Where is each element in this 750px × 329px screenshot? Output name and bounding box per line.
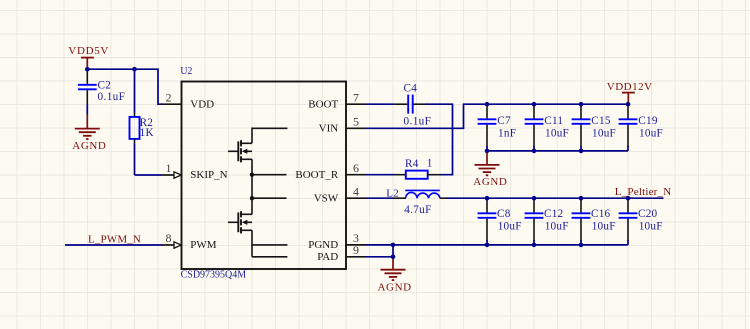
svg-text:10uF: 10uF: [592, 221, 616, 233]
svg-text:10uF: 10uF: [545, 221, 569, 233]
svg-text:1: 1: [427, 158, 433, 170]
svg-text:C2: C2: [98, 79, 112, 91]
svg-text:1: 1: [166, 161, 172, 175]
svg-text:C20: C20: [638, 208, 658, 220]
svg-text:10uF: 10uF: [592, 127, 616, 139]
svg-text:CSD97395Q4M: CSD97395Q4M: [181, 270, 247, 281]
svg-text:10uF: 10uF: [545, 127, 569, 139]
svg-text:C12: C12: [544, 208, 563, 220]
svg-text:C7: C7: [497, 115, 511, 127]
svg-text:10uF: 10uF: [639, 127, 663, 139]
svg-text:VSW: VSW: [314, 192, 339, 204]
svg-text:C4: C4: [404, 82, 418, 94]
svg-text:5: 5: [353, 115, 359, 129]
svg-text:AGND: AGND: [378, 281, 412, 293]
svg-text:VDD: VDD: [190, 98, 214, 110]
svg-text:6: 6: [353, 161, 359, 175]
svg-text:BOOT_R: BOOT_R: [295, 169, 338, 181]
svg-text:AGND: AGND: [72, 140, 106, 152]
svg-text:0.1uF: 0.1uF: [98, 91, 126, 103]
svg-text:0.1uF: 0.1uF: [404, 116, 432, 128]
svg-text:PGND: PGND: [308, 239, 338, 251]
svg-text:BOOT: BOOT: [308, 98, 338, 110]
svg-text:VDD12V: VDD12V: [607, 81, 653, 93]
svg-text:C19: C19: [638, 115, 658, 127]
svg-text:1nF: 1nF: [498, 127, 516, 139]
svg-text:VDD5V: VDD5V: [68, 45, 109, 57]
svg-text:1K: 1K: [140, 127, 154, 139]
svg-text:9: 9: [353, 243, 359, 257]
svg-text:4.7uF: 4.7uF: [404, 204, 431, 216]
svg-text:C8: C8: [497, 208, 511, 220]
svg-text:C15: C15: [591, 115, 611, 127]
svg-text:8: 8: [166, 231, 172, 245]
svg-text:2: 2: [166, 90, 172, 104]
svg-text:PWM: PWM: [190, 239, 217, 251]
svg-text:10uF: 10uF: [498, 221, 522, 233]
svg-text:R4: R4: [405, 158, 419, 170]
svg-text:PAD: PAD: [317, 251, 338, 263]
svg-text:4: 4: [353, 184, 359, 198]
svg-text:L2: L2: [386, 188, 399, 200]
svg-text:C11: C11: [544, 115, 563, 127]
svg-text:VIN: VIN: [319, 123, 339, 135]
svg-text:U2: U2: [180, 66, 192, 77]
svg-text:SKIP_N: SKIP_N: [190, 169, 227, 181]
svg-text:10uF: 10uF: [639, 221, 663, 233]
svg-text:C16: C16: [591, 208, 611, 220]
svg-text:AGND: AGND: [473, 176, 507, 188]
svg-text:7: 7: [353, 90, 359, 104]
svg-text:L_PWM_N: L_PWM_N: [88, 234, 141, 246]
svg-text:L_Peltier_N: L_Peltier_N: [615, 186, 672, 198]
